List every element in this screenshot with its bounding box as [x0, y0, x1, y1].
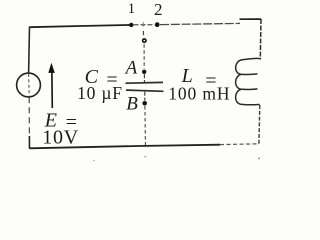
switch pole (open dot)	[143, 39, 146, 42]
wire: bottom wire solid left part	[30, 145, 221, 149]
wire: top wire left segment (top-left corner to contact 1)	[29, 25, 131, 27]
svg-text:10 µF: 10 µF	[77, 83, 123, 103]
inductor L coil loop 3	[236, 89, 260, 104]
wire: lead node A to top plate	[143, 74, 145, 82]
svg-text:B: B	[126, 94, 138, 115]
inductor L coil loop 2	[236, 74, 258, 89]
wire: dashed lead from pole down to node A	[143, 44, 145, 68]
wire: dashed segment between contact 1 and contact 2	[134, 24, 155, 26]
wire: dashed through source	[28, 74, 31, 97]
wire: dashed top wire from contact 2 to right side	[160, 23, 240, 24]
switch pole tick to wire	[142, 31, 144, 35]
svg-text:2: 2	[154, 0, 163, 19]
svg-text:1: 1	[128, 1, 136, 17]
scan speck 3	[93, 160, 94, 161]
wire: dashed lead node B down to bottom wire	[144, 106, 147, 145]
wire: right wire lower (inductor to bottom corner)	[258, 105, 261, 144]
svg-text:100 mH: 100 mH	[168, 83, 230, 103]
arrow (EMF direction) shaft	[51, 73, 53, 109]
switch contact 1 (filled dot)	[129, 23, 133, 27]
wire: left wire upper (corner to source)	[28, 27, 31, 74]
wire: raised top-right segment	[240, 18, 262, 20]
wire: right wire upper (corner down to inductor)	[259, 19, 262, 59]
voltage source E circle	[17, 73, 41, 97]
svg-text:10V: 10V	[42, 127, 79, 149]
switch contact 2 (filled dot)	[155, 22, 160, 27]
node B dot	[142, 101, 147, 106]
capacitor C top plate	[126, 81, 164, 84]
arrow head	[48, 63, 55, 73]
wire: left wire lower (source to bottom corner)	[28, 97, 30, 135]
wire: lead bottom plate to node B	[144, 92, 146, 101]
node A dot	[142, 70, 146, 74]
scan speck 1	[144, 156, 146, 158]
scan speck 2	[258, 158, 260, 160]
wire: bottom wire dashed right part	[220, 143, 259, 146]
capacitor C bottom plate	[126, 90, 164, 91]
inductor L coil loop 1	[236, 58, 261, 74]
svg-text:A: A	[124, 57, 138, 78]
